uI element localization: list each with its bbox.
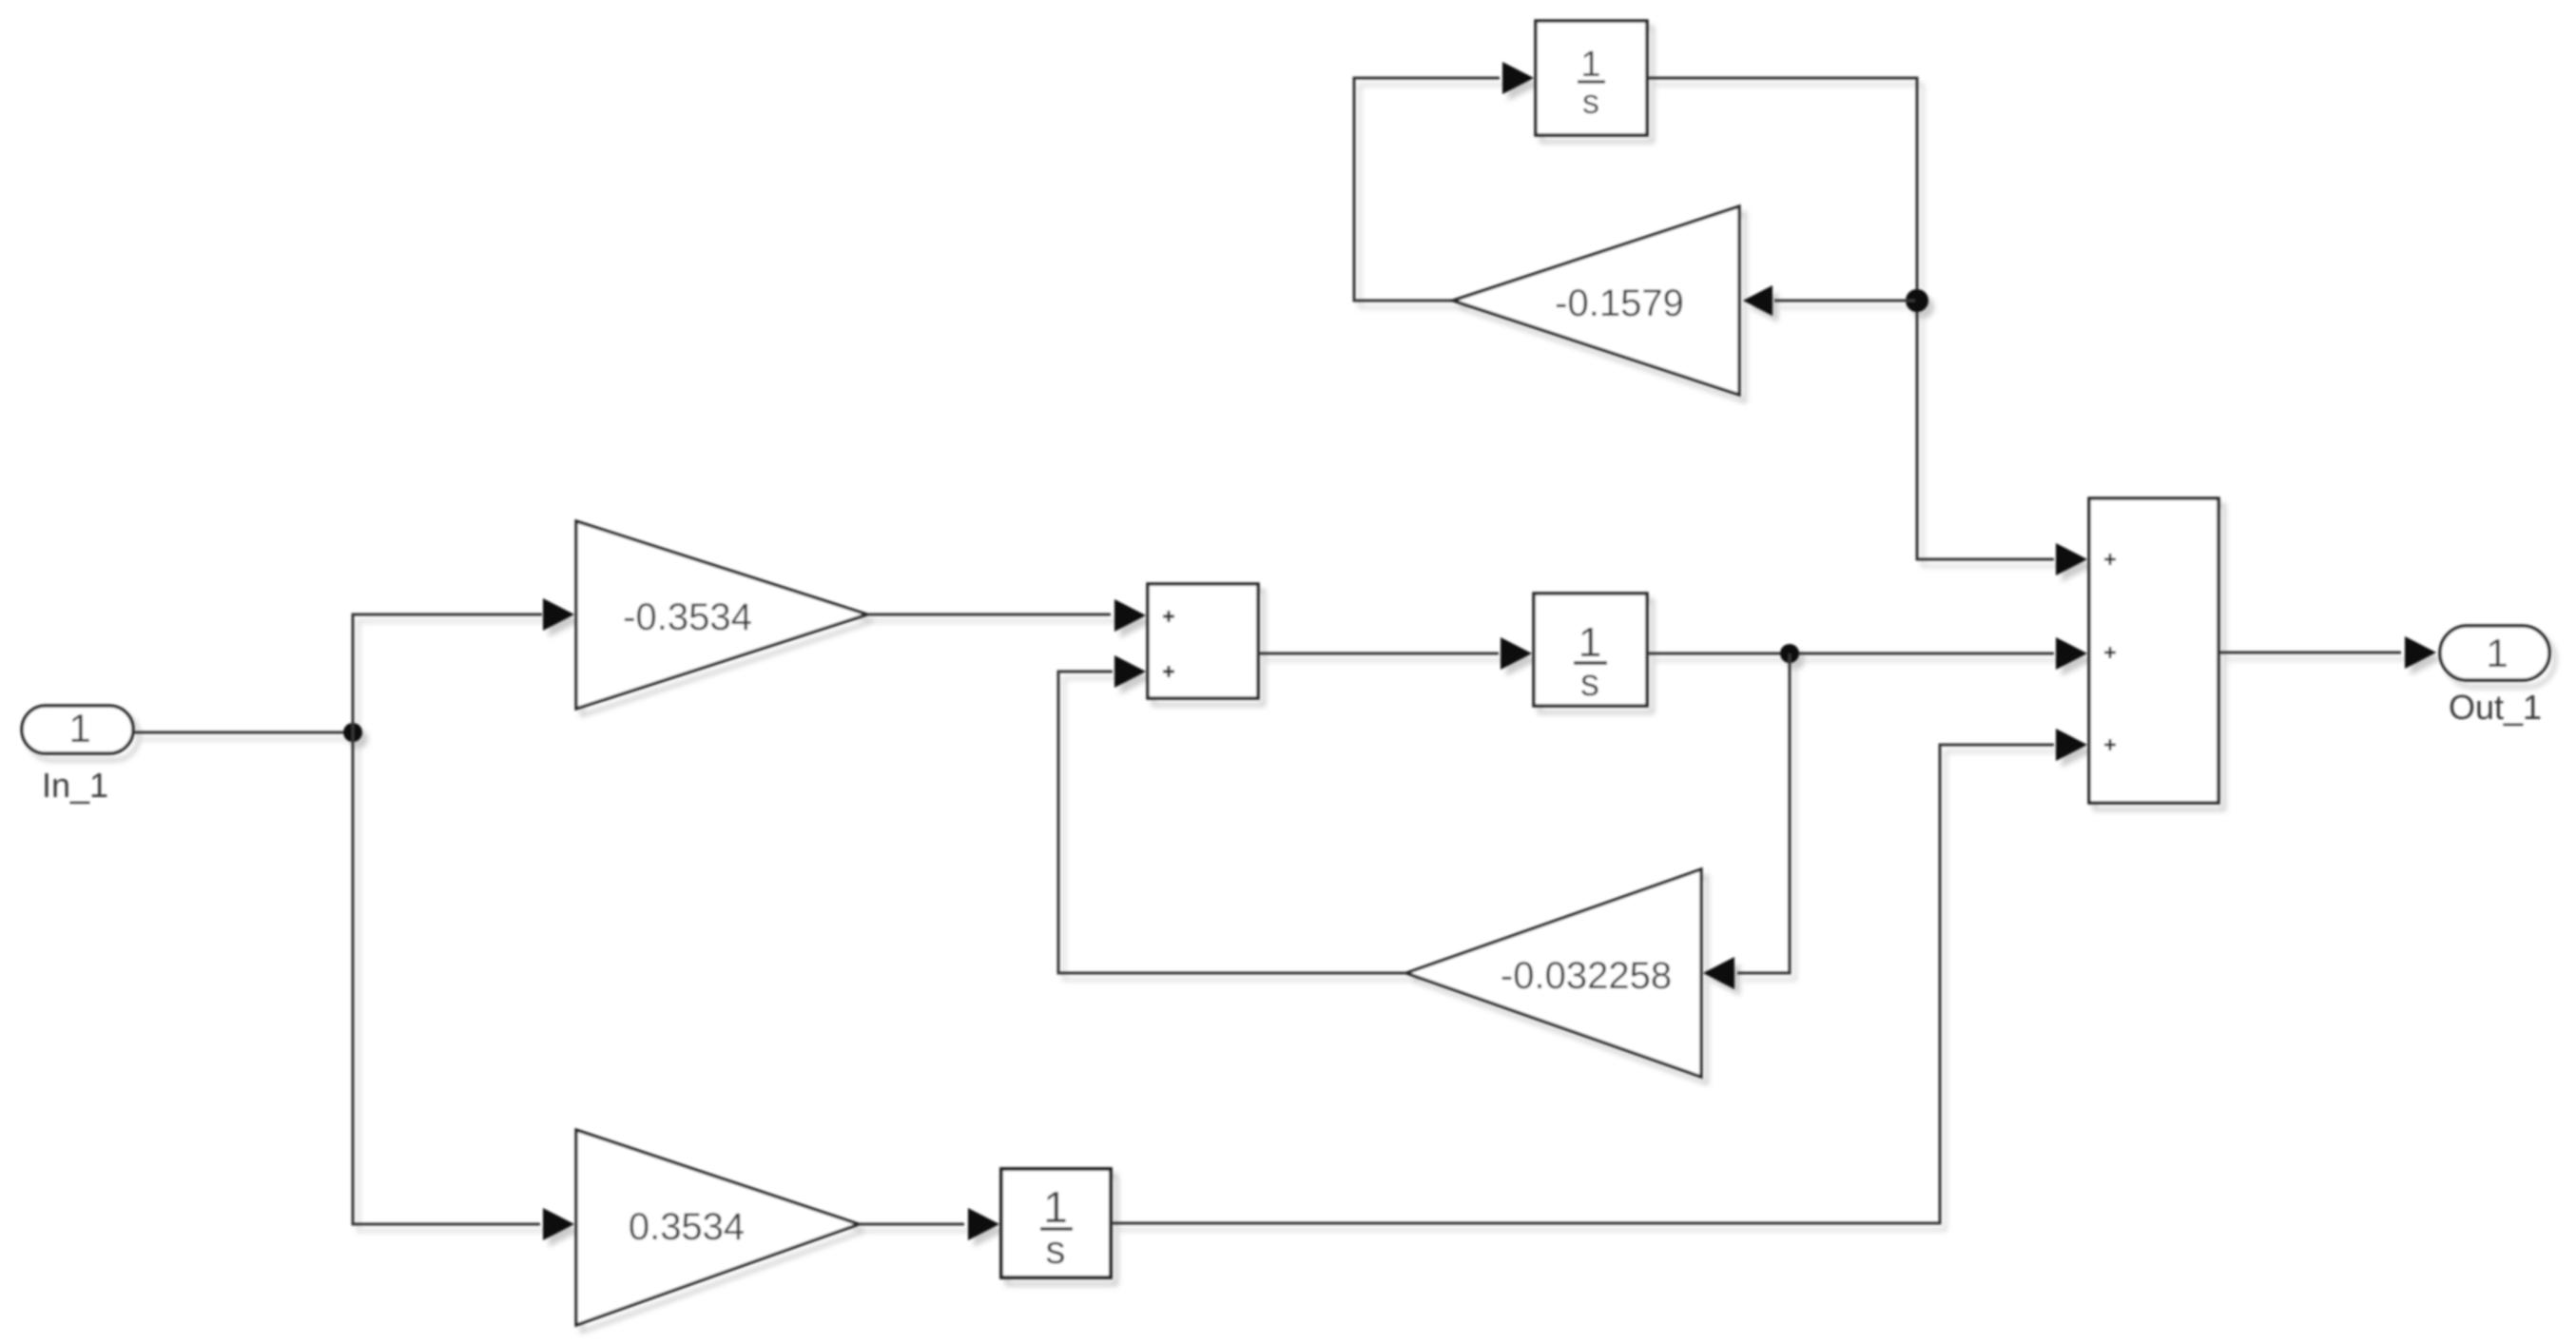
gain G2 -0.1579 xyxy=(1453,206,1739,395)
svg-text:s: s xyxy=(1580,662,1599,704)
svg-text:s: s xyxy=(1046,1227,1066,1272)
arrowhead into integrator I3 xyxy=(968,1208,999,1240)
arrowhead into sum S2 input 2 xyxy=(2056,637,2087,670)
gain G1 -0.3534 xyxy=(576,521,867,709)
output port Out_1 xyxy=(2440,626,2549,680)
svg-text:1: 1 xyxy=(68,706,90,750)
arrowhead into sum S2 input 3 xyxy=(2056,729,2087,761)
wire node A up to gain G1 input xyxy=(353,614,542,732)
wire sum S1 to integrator I2 xyxy=(1258,653,1499,655)
wire node C to gain G2 input xyxy=(1774,300,1915,302)
wire In_1 to node A xyxy=(133,731,351,734)
arrowhead into gain G2 xyxy=(1743,285,1772,316)
wire gain G2 output to integrator I1 input xyxy=(1354,78,1500,301)
svg-text:Out_1: Out_1 xyxy=(2449,688,2542,727)
svg-text:-0.3534: -0.3534 xyxy=(623,596,752,638)
arrowhead into gain G4 xyxy=(543,1208,574,1240)
svg-text:1: 1 xyxy=(1043,1182,1068,1232)
svg-text:In_1: In_1 xyxy=(42,766,108,805)
svg-text:1: 1 xyxy=(1579,619,1601,666)
wire sum S2 to output port Out_1 xyxy=(2218,652,2401,654)
wire integrator I3 to sum S2 input 3 xyxy=(1111,745,2054,1223)
arrowhead into sum S1 input 1 xyxy=(1114,599,1146,632)
wire node A down to gain G4 input xyxy=(353,732,540,1224)
arrowhead into gain G3 xyxy=(1703,957,1734,989)
sum S1 xyxy=(1148,584,1258,698)
wire gain G4 to integrator I3 xyxy=(859,1223,964,1226)
svg-text:s: s xyxy=(1582,82,1599,121)
arrowhead into integrator I2 xyxy=(1501,637,1532,670)
input port In_1 xyxy=(22,706,133,753)
node A junction xyxy=(343,723,362,742)
wire integrator I1 to node C and down to sum S2 input 1 xyxy=(1647,78,2054,559)
wire gain G3 to sum S1 input 2 xyxy=(1058,672,1406,973)
wire node B down to gain G3 input xyxy=(1737,653,1790,973)
svg-text:-0.032258: -0.032258 xyxy=(1501,955,1672,997)
wire gain G1 to sum S1 input 1 xyxy=(867,614,1111,616)
svg-text:-0.1579: -0.1579 xyxy=(1555,282,1684,324)
integrator I3 1/s xyxy=(1001,1169,1111,1277)
gain G3 -0.032258 xyxy=(1406,869,1701,1077)
sum S2 xyxy=(2089,498,2218,803)
arrowhead into sum S1 input 2 xyxy=(1114,655,1146,688)
svg-text:1: 1 xyxy=(1580,45,1600,85)
svg-text:0.3534: 0.3534 xyxy=(629,1206,745,1248)
arrowhead into gain G1 xyxy=(543,598,574,631)
arrowhead into sum S2 input 1 xyxy=(2056,543,2087,575)
wire integrator I2 to node B and sum S2 input 2 xyxy=(1647,653,2054,655)
node C junction xyxy=(1906,289,1928,312)
node B junction xyxy=(1780,644,1799,663)
arrowhead into output port Out_1 xyxy=(2405,636,2436,669)
svg-text:1: 1 xyxy=(2486,631,2508,675)
integrator I1 1/s xyxy=(1536,21,1647,135)
integrator I2 1/s xyxy=(1534,594,1647,706)
gain G4 0.3534 xyxy=(576,1130,859,1325)
arrowhead into integrator I1 xyxy=(1502,62,1534,94)
